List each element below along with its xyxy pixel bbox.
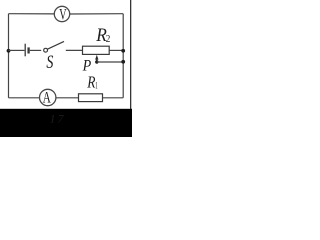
svg-text:A: A bbox=[43, 89, 51, 107]
node slider bend bbox=[95, 60, 98, 63]
battery cell (short thick plate) bbox=[27, 47, 29, 53]
switch S blade (open) bbox=[47, 41, 64, 49]
wire ammeter to R1 bbox=[56, 97, 79, 99]
black banner bottom bbox=[0, 109, 132, 137]
wire R2 right terminal to right wire bbox=[109, 49, 123, 51]
wire right vertical bbox=[122, 14, 124, 98]
svg-text:17: 17 bbox=[50, 112, 66, 126]
node junction right upper bbox=[121, 49, 125, 53]
wire switch to rheostat R2 bbox=[66, 49, 83, 51]
voltmeter V bbox=[54, 6, 69, 23]
wire junction to battery bbox=[9, 49, 25, 51]
svg-text:1: 1 bbox=[95, 81, 98, 91]
node junction right lower bbox=[121, 60, 125, 64]
wire top-left horizontal (battery loop top) bbox=[9, 13, 55, 15]
wire battery to switch bbox=[30, 49, 41, 51]
wire left vertical bbox=[8, 14, 10, 98]
rheostat R2 body bbox=[83, 46, 110, 54]
table border line right bbox=[130, 0, 132, 137]
battery cell (long plate) bbox=[24, 44, 26, 57]
wire slider to right wire bbox=[97, 61, 123, 63]
svg-text:S: S bbox=[46, 53, 53, 73]
switch S pivot bbox=[44, 48, 48, 52]
ammeter A bbox=[40, 89, 56, 107]
svg-text:V: V bbox=[59, 6, 67, 23]
rheostat slider P arrow bbox=[95, 55, 98, 62]
wire bottom left (corner to ammeter) bbox=[9, 97, 40, 99]
svg-text:R: R bbox=[86, 72, 95, 91]
wire R1 to bottom-right corner bbox=[103, 97, 124, 99]
wire voltmeter to top-right corner bbox=[70, 13, 124, 15]
node junction left (battery branch) bbox=[7, 49, 11, 53]
resistor R1 body bbox=[79, 94, 103, 102]
svg-text:2: 2 bbox=[106, 34, 111, 45]
